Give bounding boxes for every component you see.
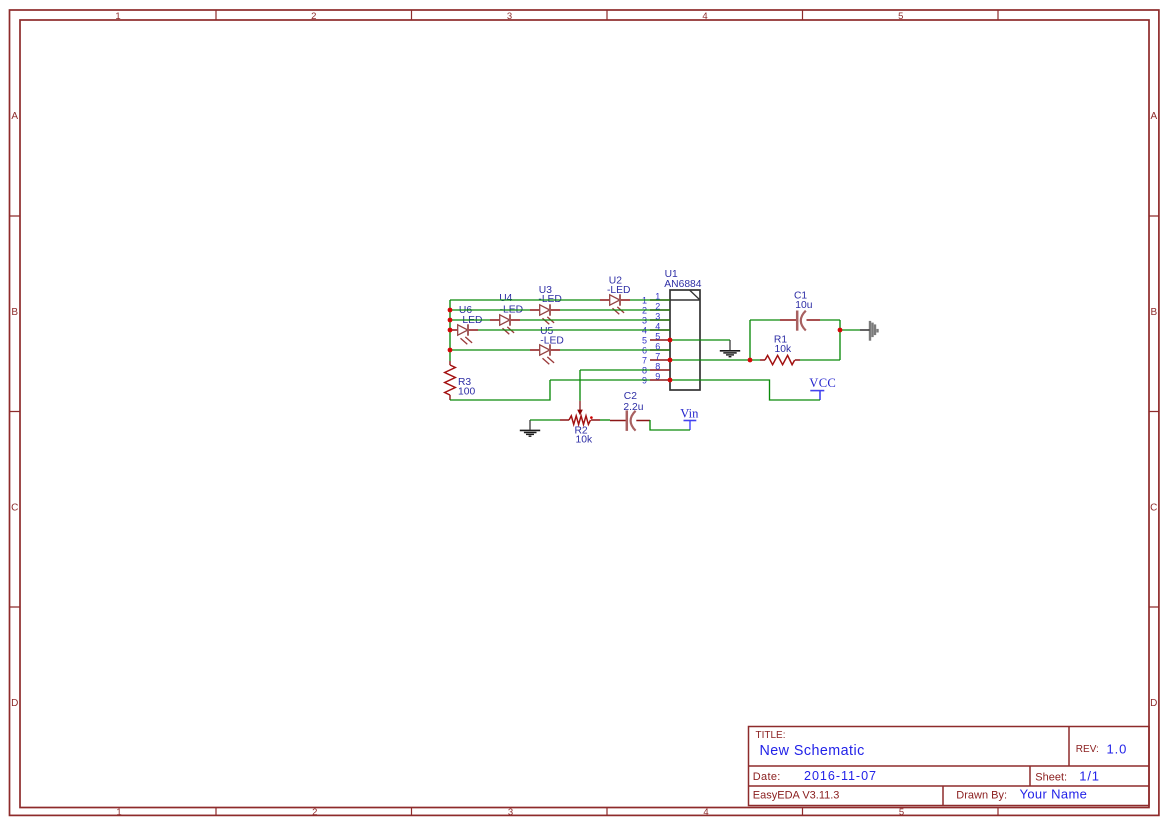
junction dot rail row4 [448, 328, 453, 333]
svg-text:9: 9 [655, 371, 660, 381]
IC U1 pin names [642, 295, 647, 385]
junction dot rail row6 [448, 348, 453, 353]
svg-text:10k: 10k [576, 435, 593, 446]
wire row4 right [478, 329, 670, 331]
wire R1 right [800, 359, 840, 361]
wire row1 right [630, 299, 670, 301]
svg-text:100: 100 [458, 386, 475, 397]
svg-text:1/1: 1/1 [1079, 769, 1099, 784]
wire C1 loop left vertical [749, 320, 751, 360]
wire row2 left [450, 309, 530, 311]
svg-text:Date:: Date: [753, 771, 781, 783]
capacitor C1 [780, 311, 820, 331]
svg-text:1.0: 1.0 [1107, 742, 1128, 757]
svg-text:-LED: -LED [459, 315, 482, 326]
svg-text:A: A [1150, 111, 1157, 122]
wire pin9 right to VCC corner [670, 380, 820, 400]
wire ground to R2 [530, 419, 560, 421]
wire C1 left [750, 319, 780, 321]
wire C1 right [820, 319, 840, 321]
svg-text:5: 5 [642, 335, 647, 345]
svg-text:10k: 10k [775, 344, 792, 355]
svg-text:B: B [1150, 307, 1157, 318]
capacitor C2 [610, 410, 650, 431]
svg-text:C: C [11, 503, 18, 514]
svg-text:4: 4 [703, 807, 708, 818]
svg-text:C2: C2 [624, 391, 637, 402]
wire row6 right [560, 349, 670, 351]
svg-text:4: 4 [702, 11, 707, 22]
svg-text:TITLE:: TITLE: [756, 730, 786, 741]
earth ground right of C1 [869, 321, 879, 341]
diode U2 [600, 294, 630, 314]
svg-text:10u: 10u [795, 300, 812, 311]
svg-text:D: D [11, 698, 18, 709]
wire left rail [449, 300, 451, 361]
svg-text:C: C [1150, 503, 1157, 514]
capacitor C1 labels [794, 290, 813, 311]
diode U3 labels [538, 285, 561, 305]
svg-text:-LED: -LED [607, 285, 630, 296]
svg-text:D: D [1150, 698, 1157, 709]
svg-text:7: 7 [642, 355, 647, 365]
IC U1 body [670, 290, 700, 390]
wire C1 loop right vertical [839, 320, 841, 360]
wire row1 left [450, 299, 600, 301]
IC U1 labels [664, 269, 701, 290]
svg-text:VCC: VCC [809, 376, 836, 390]
junction dot pin5 [668, 338, 673, 343]
wire pin5 to ground [670, 339, 730, 341]
junction dot rail row2 [448, 308, 453, 313]
frame row letters left [11, 111, 18, 709]
svg-text:REV:: REV: [1076, 744, 1099, 755]
ground near IC pin5 [720, 340, 740, 357]
junction dot pin7 [668, 358, 673, 363]
svg-text:Vin: Vin [680, 407, 699, 421]
diode U3 [530, 304, 560, 324]
svg-text:5: 5 [899, 807, 904, 818]
wire to earth ground [840, 329, 860, 331]
diode U2 labels [607, 275, 630, 296]
wire pin8 [580, 369, 650, 371]
wire row2 right [560, 309, 670, 311]
diode U6 labels [459, 305, 483, 326]
svg-text:U4: U4 [499, 293, 512, 304]
svg-text:A: A [11, 111, 18, 122]
junction dot earth branch [838, 328, 843, 333]
diode U6 [448, 324, 478, 344]
svg-text:3: 3 [507, 11, 512, 22]
wire row3 right [520, 319, 670, 321]
Vin net flag [680, 407, 699, 430]
svg-text:1: 1 [115, 11, 120, 22]
capacitor C2 labels [623, 391, 643, 413]
resistor R2 labels [575, 426, 593, 446]
frame column numbers top [115, 11, 903, 22]
wire pin8 down to R2 arrow [579, 370, 581, 401]
diode U4 labels [499, 293, 523, 316]
svg-text:3: 3 [508, 807, 513, 818]
junction dot pin9 [668, 378, 673, 383]
resistor R1 labels [774, 335, 792, 355]
wire C2 to Vin [650, 420, 690, 430]
svg-text:EasyEDA V3.11.3: EasyEDA V3.11.3 [753, 789, 840, 801]
IC U1 pin stubs [650, 300, 670, 380]
svg-text:1: 1 [116, 807, 121, 818]
svg-text:B: B [11, 307, 18, 318]
svg-text:8: 8 [655, 361, 660, 371]
frame column numbers bottom [116, 807, 904, 818]
wire row3 left [450, 319, 490, 321]
wire row6 left [450, 349, 530, 351]
resistor R1 [760, 355, 800, 364]
svg-text:2016-11-07: 2016-11-07 [804, 769, 877, 783]
svg-text:5: 5 [655, 331, 660, 341]
svg-text:Your Name: Your Name [1020, 786, 1088, 801]
diode U5 [530, 344, 560, 364]
junction dot rail row3 [448, 318, 453, 323]
frame row letters right [1150, 111, 1157, 709]
svg-text:AN6884: AN6884 [664, 279, 701, 290]
svg-text:2: 2 [311, 11, 316, 22]
svg-text:5: 5 [898, 11, 903, 22]
wire pin9 left [550, 379, 650, 381]
IC U1 pin numbers [655, 291, 660, 381]
svg-text:Sheet:: Sheet: [1035, 772, 1067, 784]
svg-text:Drawn By:: Drawn By: [956, 789, 1007, 801]
svg-text:7: 7 [655, 351, 660, 361]
diode U5 labels [540, 326, 564, 347]
VCC net flag [809, 376, 836, 400]
wire R2 to C2 [600, 419, 610, 421]
svg-text:-LED: -LED [540, 335, 563, 346]
title block outline [749, 727, 1150, 806]
wire earth black segment [860, 329, 870, 331]
potentiometer R2 [560, 401, 600, 425]
junction dot R1 left [748, 358, 753, 363]
resistor R3 labels [458, 377, 475, 397]
ground near R2 [520, 420, 540, 436]
wire bottom R3 to pin9 [450, 380, 550, 400]
wire pin7 to R1 [670, 359, 760, 361]
diode U4 [490, 314, 520, 334]
svg-text:2: 2 [312, 807, 317, 818]
resistor R3 [445, 361, 456, 400]
svg-text:New Schematic: New Schematic [760, 743, 865, 759]
